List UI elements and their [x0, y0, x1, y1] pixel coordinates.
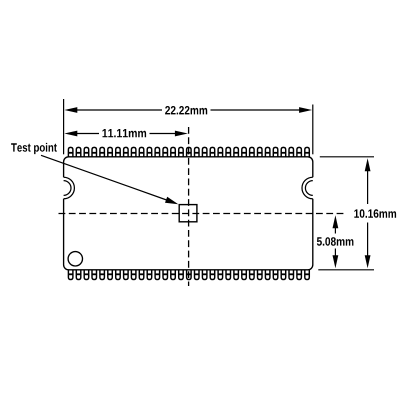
bottom pin 9: [131, 270, 136, 280]
test point square: [179, 205, 197, 222]
22.22mm dimension line left segment: [76, 109, 163, 111]
top pin 9: [131, 147, 136, 156]
top pin 14: [171, 147, 176, 156]
top pin 22: [234, 147, 239, 156]
top pin 10: [139, 147, 144, 156]
11.11mm right arrowhead: [175, 131, 188, 137]
label: 10.16mm: [354, 209, 396, 218]
top pin 24: [250, 147, 255, 156]
11.11mm left arrowhead: [64, 131, 77, 137]
bottom pin 11: [147, 270, 152, 280]
top pin 28: [281, 147, 286, 156]
bottom pin 16: [187, 270, 192, 280]
label: 5.08mm: [317, 237, 354, 246]
top pin 23: [242, 147, 247, 156]
bottom pin 10: [139, 270, 144, 280]
10.16mm top arrowhead: [365, 158, 371, 171]
top pin 5: [100, 147, 105, 156]
bottom pin 7: [116, 270, 121, 280]
bottom pin 28: [281, 270, 286, 280]
bottom pin 18: [202, 270, 207, 280]
test point leader arrowhead: [165, 197, 178, 205]
bottom pin 31: [305, 270, 310, 280]
22.22mm dimension line right segment: [211, 109, 301, 111]
top pin 19: [210, 147, 215, 156]
label: Test point: [11, 143, 57, 154]
bottom pin 22: [234, 270, 239, 280]
bottom pin 14: [171, 270, 176, 280]
top pin 4: [92, 147, 97, 156]
bottom pin 4: [92, 270, 97, 280]
test point leader line: [41, 155, 168, 200]
22.22mm left extension line: [63, 99, 65, 154]
bottom pin 17: [195, 270, 200, 280]
bottom pin 21: [226, 270, 231, 280]
top pin 11: [147, 147, 152, 156]
bottom pin 2: [76, 270, 81, 280]
top pin 16: [187, 147, 192, 156]
top pin 31: [305, 147, 310, 156]
top pin 26: [265, 147, 270, 156]
5.08mm top arrowhead: [333, 215, 339, 228]
top pin 25: [258, 147, 263, 156]
11.11mm dimension line right segment: [150, 133, 177, 135]
bottom pin 30: [297, 270, 302, 280]
label: 11.11mm: [103, 129, 147, 137]
top pin 7: [116, 147, 121, 156]
11.11mm dimension line left segment: [76, 133, 100, 135]
bottom pin 13: [163, 270, 168, 280]
22.22mm right arrowhead: [299, 107, 312, 113]
label: 22.22mm: [165, 106, 207, 114]
IC package body outline: [64, 157, 313, 270]
notch edge gaps (white covers): [62, 177, 64, 199]
top pin 17: [195, 147, 200, 156]
top pin 2: [76, 147, 81, 156]
bottom pin 5: [100, 270, 105, 280]
right edge notch (double arc): [302, 177, 313, 199]
22.22mm left arrowhead: [64, 107, 77, 113]
bottom pin 19: [210, 270, 215, 280]
bottom pin 23: [242, 270, 247, 280]
5.08mm dimension line lower segment: [334, 249, 336, 258]
bottom pin 8: [124, 270, 129, 280]
5.08mm bottom arrowhead: [333, 255, 339, 268]
10.16mm dimension line upper segment: [367, 170, 369, 204]
top pin 29: [289, 147, 294, 156]
10.16mm bottom extension line: [318, 269, 374, 271]
bottom pin 12: [155, 270, 160, 280]
top pin 30: [297, 147, 302, 156]
bottom pin 1: [68, 270, 73, 280]
left edge notch (double arc): [64, 177, 75, 199]
top pin 27: [273, 147, 278, 156]
10.16mm dimension line lower segment: [367, 223, 369, 258]
top pin 8: [124, 147, 129, 156]
pin 1 indicator circle: [68, 252, 82, 266]
top pin 13: [163, 147, 168, 156]
bottom pin 6: [108, 270, 113, 280]
top pin 12: [155, 147, 160, 156]
bottom pin 25: [258, 270, 263, 280]
vertical dashed centerline: [188, 127, 190, 286]
bottom pin 20: [218, 270, 223, 280]
top pin 6: [108, 147, 113, 156]
bottom pin 26: [265, 270, 270, 280]
bottom pin 15: [179, 270, 184, 280]
top pin 1: [68, 147, 73, 156]
22.22mm right extension line: [312, 105, 314, 155]
horizontal dashed centerline: [59, 213, 345, 215]
bottom pin 24: [250, 270, 255, 280]
top pin 20: [218, 147, 223, 156]
bottom pin 29: [289, 270, 294, 280]
top pin 15: [179, 147, 184, 156]
5.08mm dimension line upper segment: [334, 227, 336, 234]
top pin 21: [226, 147, 231, 156]
top pin 18: [202, 147, 207, 156]
bottom pin 3: [84, 270, 89, 280]
10.16mm bottom arrowhead: [365, 255, 371, 268]
bottom pin 27: [273, 270, 278, 280]
10.16mm top extension line: [320, 156, 374, 158]
top pin 3: [84, 147, 89, 156]
